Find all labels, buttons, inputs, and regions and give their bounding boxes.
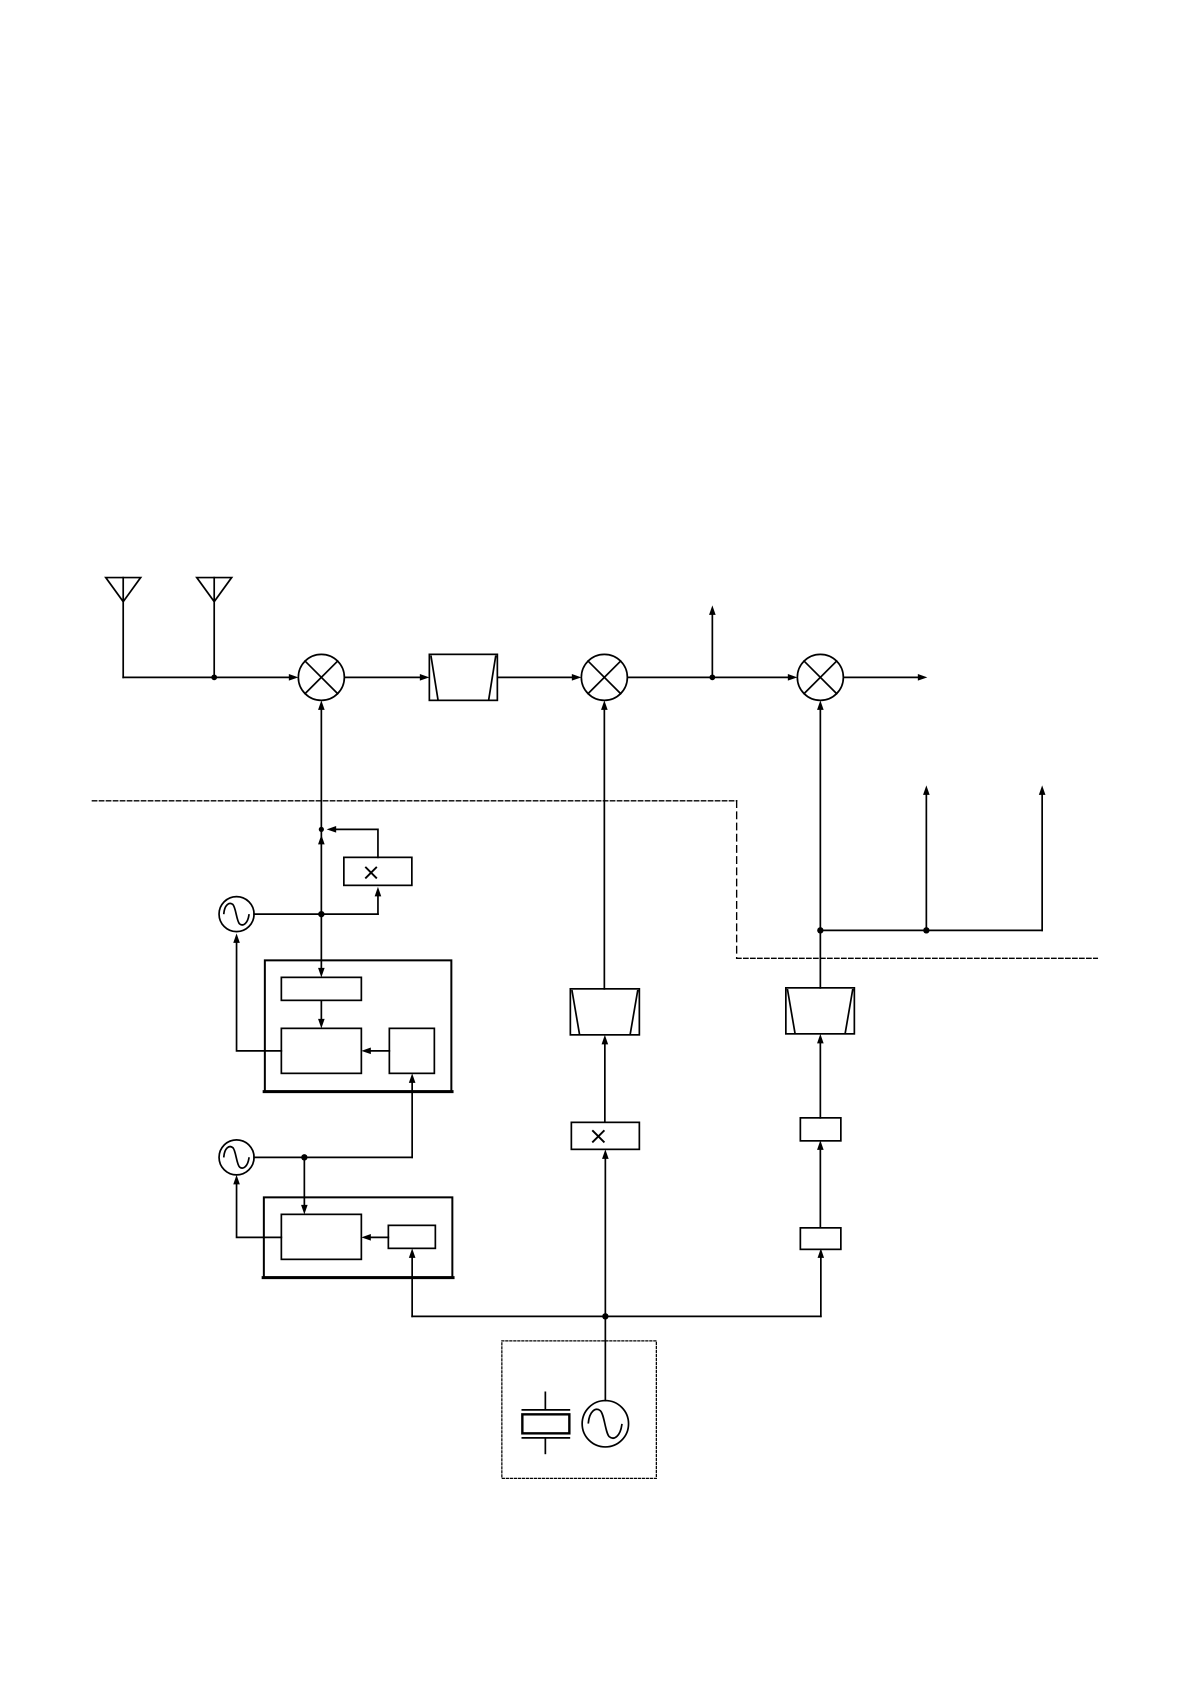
wire IF output up arrow — [709, 605, 716, 677]
wire oscillator VCO1 output to multiplier X1 — [254, 887, 381, 914]
wire reference oscillator to bus — [604, 1316, 606, 1400]
PLL1 reference divider box — [389, 1028, 434, 1073]
oscillator VCO2 — [219, 1140, 254, 1175]
wire antenna bus to mixer 1 — [123, 674, 298, 681]
buffer amp box B2 — [800, 1228, 841, 1250]
node VCO1 output junction — [318, 911, 324, 917]
node antenna junction — [211, 674, 217, 680]
PLL2 phase detector box — [281, 1214, 361, 1259]
filter FL3 — [786, 988, 855, 1034]
wire reference bus right riser to buffer — [818, 1248, 825, 1316]
wire VCO2 line into PLL1 reference divider — [409, 1073, 416, 1157]
filter FL2 — [570, 989, 639, 1035]
wire reference distribution bus — [412, 1315, 821, 1317]
wire reference into PLL2 divider — [409, 1248, 416, 1316]
wire filter FL3 to mixer 3 LO — [817, 700, 824, 988]
buffer amp box B1 — [800, 1118, 841, 1141]
filter FL1 — [429, 654, 497, 700]
wire VCO2 output — [254, 1156, 412, 1158]
antenna ANT2 — [197, 578, 232, 678]
node LO1 sum junction — [319, 827, 324, 832]
crystal X1 — [522, 1392, 569, 1453]
antenna ANT1 — [106, 578, 141, 678]
node VCO2 output junction — [301, 1154, 307, 1160]
wire prescaler to phase detector — [318, 1000, 325, 1028]
mixer U3 — [797, 654, 843, 700]
PLL1 prescaler box — [281, 977, 361, 1000]
wire PLL2 loop filter to VCO2 — [233, 1175, 281, 1238]
wire PLL2 reference divider to phase detector — [361, 1234, 388, 1241]
wire audio output arrow — [843, 674, 927, 681]
wire reference bus up to multiplier X2 — [602, 1149, 609, 1316]
multiplier X2 box — [571, 1122, 639, 1149]
wire buffer B2 to buffer B1 — [817, 1140, 824, 1227]
oscillator VCO1 — [219, 897, 254, 932]
wire LO1 into mixer 1 — [318, 700, 325, 914]
node BFO tap junction — [817, 927, 823, 933]
PLL2 reference divider box — [388, 1225, 435, 1248]
wire filter FL2 to mixer 2 LO — [601, 700, 608, 989]
wire reference divider to phase detector — [361, 1048, 389, 1055]
wire BFO output arrow 2 — [1039, 785, 1046, 930]
PLL2 IC outline — [264, 1197, 453, 1277]
node reference bus junction — [602, 1313, 608, 1319]
PLL1 IC outline — [265, 960, 452, 1091]
wire mixer 2 to mixer 3 — [627, 674, 797, 681]
wire VCO2 junction down into PLL2 — [301, 1157, 308, 1214]
wire BFO tap bus — [820, 929, 1042, 931]
dashed shield boundary — [92, 800, 736, 802]
reference oscillator unit dotted box — [502, 1341, 656, 1479]
wire arrow into LO1 junction from below — [318, 835, 325, 845]
node IF tap junction — [709, 674, 715, 680]
mixer U1 — [298, 654, 344, 700]
multiplier X1 box — [344, 857, 412, 885]
wire PLL1 loop filter to VCO1 — [233, 933, 281, 1051]
wire multiplier X1 output to LO1 junction — [327, 826, 378, 857]
oscillator reference OSC — [582, 1401, 628, 1447]
PLL1 phase detector box — [281, 1028, 361, 1073]
mixer U2 — [581, 654, 627, 700]
wire BFO output arrow 1 — [923, 785, 930, 930]
node BFO bus junction — [923, 927, 929, 933]
wire mixer 1 to filter FL1 — [344, 674, 429, 681]
wire multiplier X2 to filter FL2 — [602, 1035, 609, 1122]
wire VCO1 junction down into PLL1 — [318, 914, 325, 977]
wire buffer B1 to filter FL3 — [817, 1034, 824, 1118]
wire filter FL1 to mixer 2 — [497, 674, 581, 681]
